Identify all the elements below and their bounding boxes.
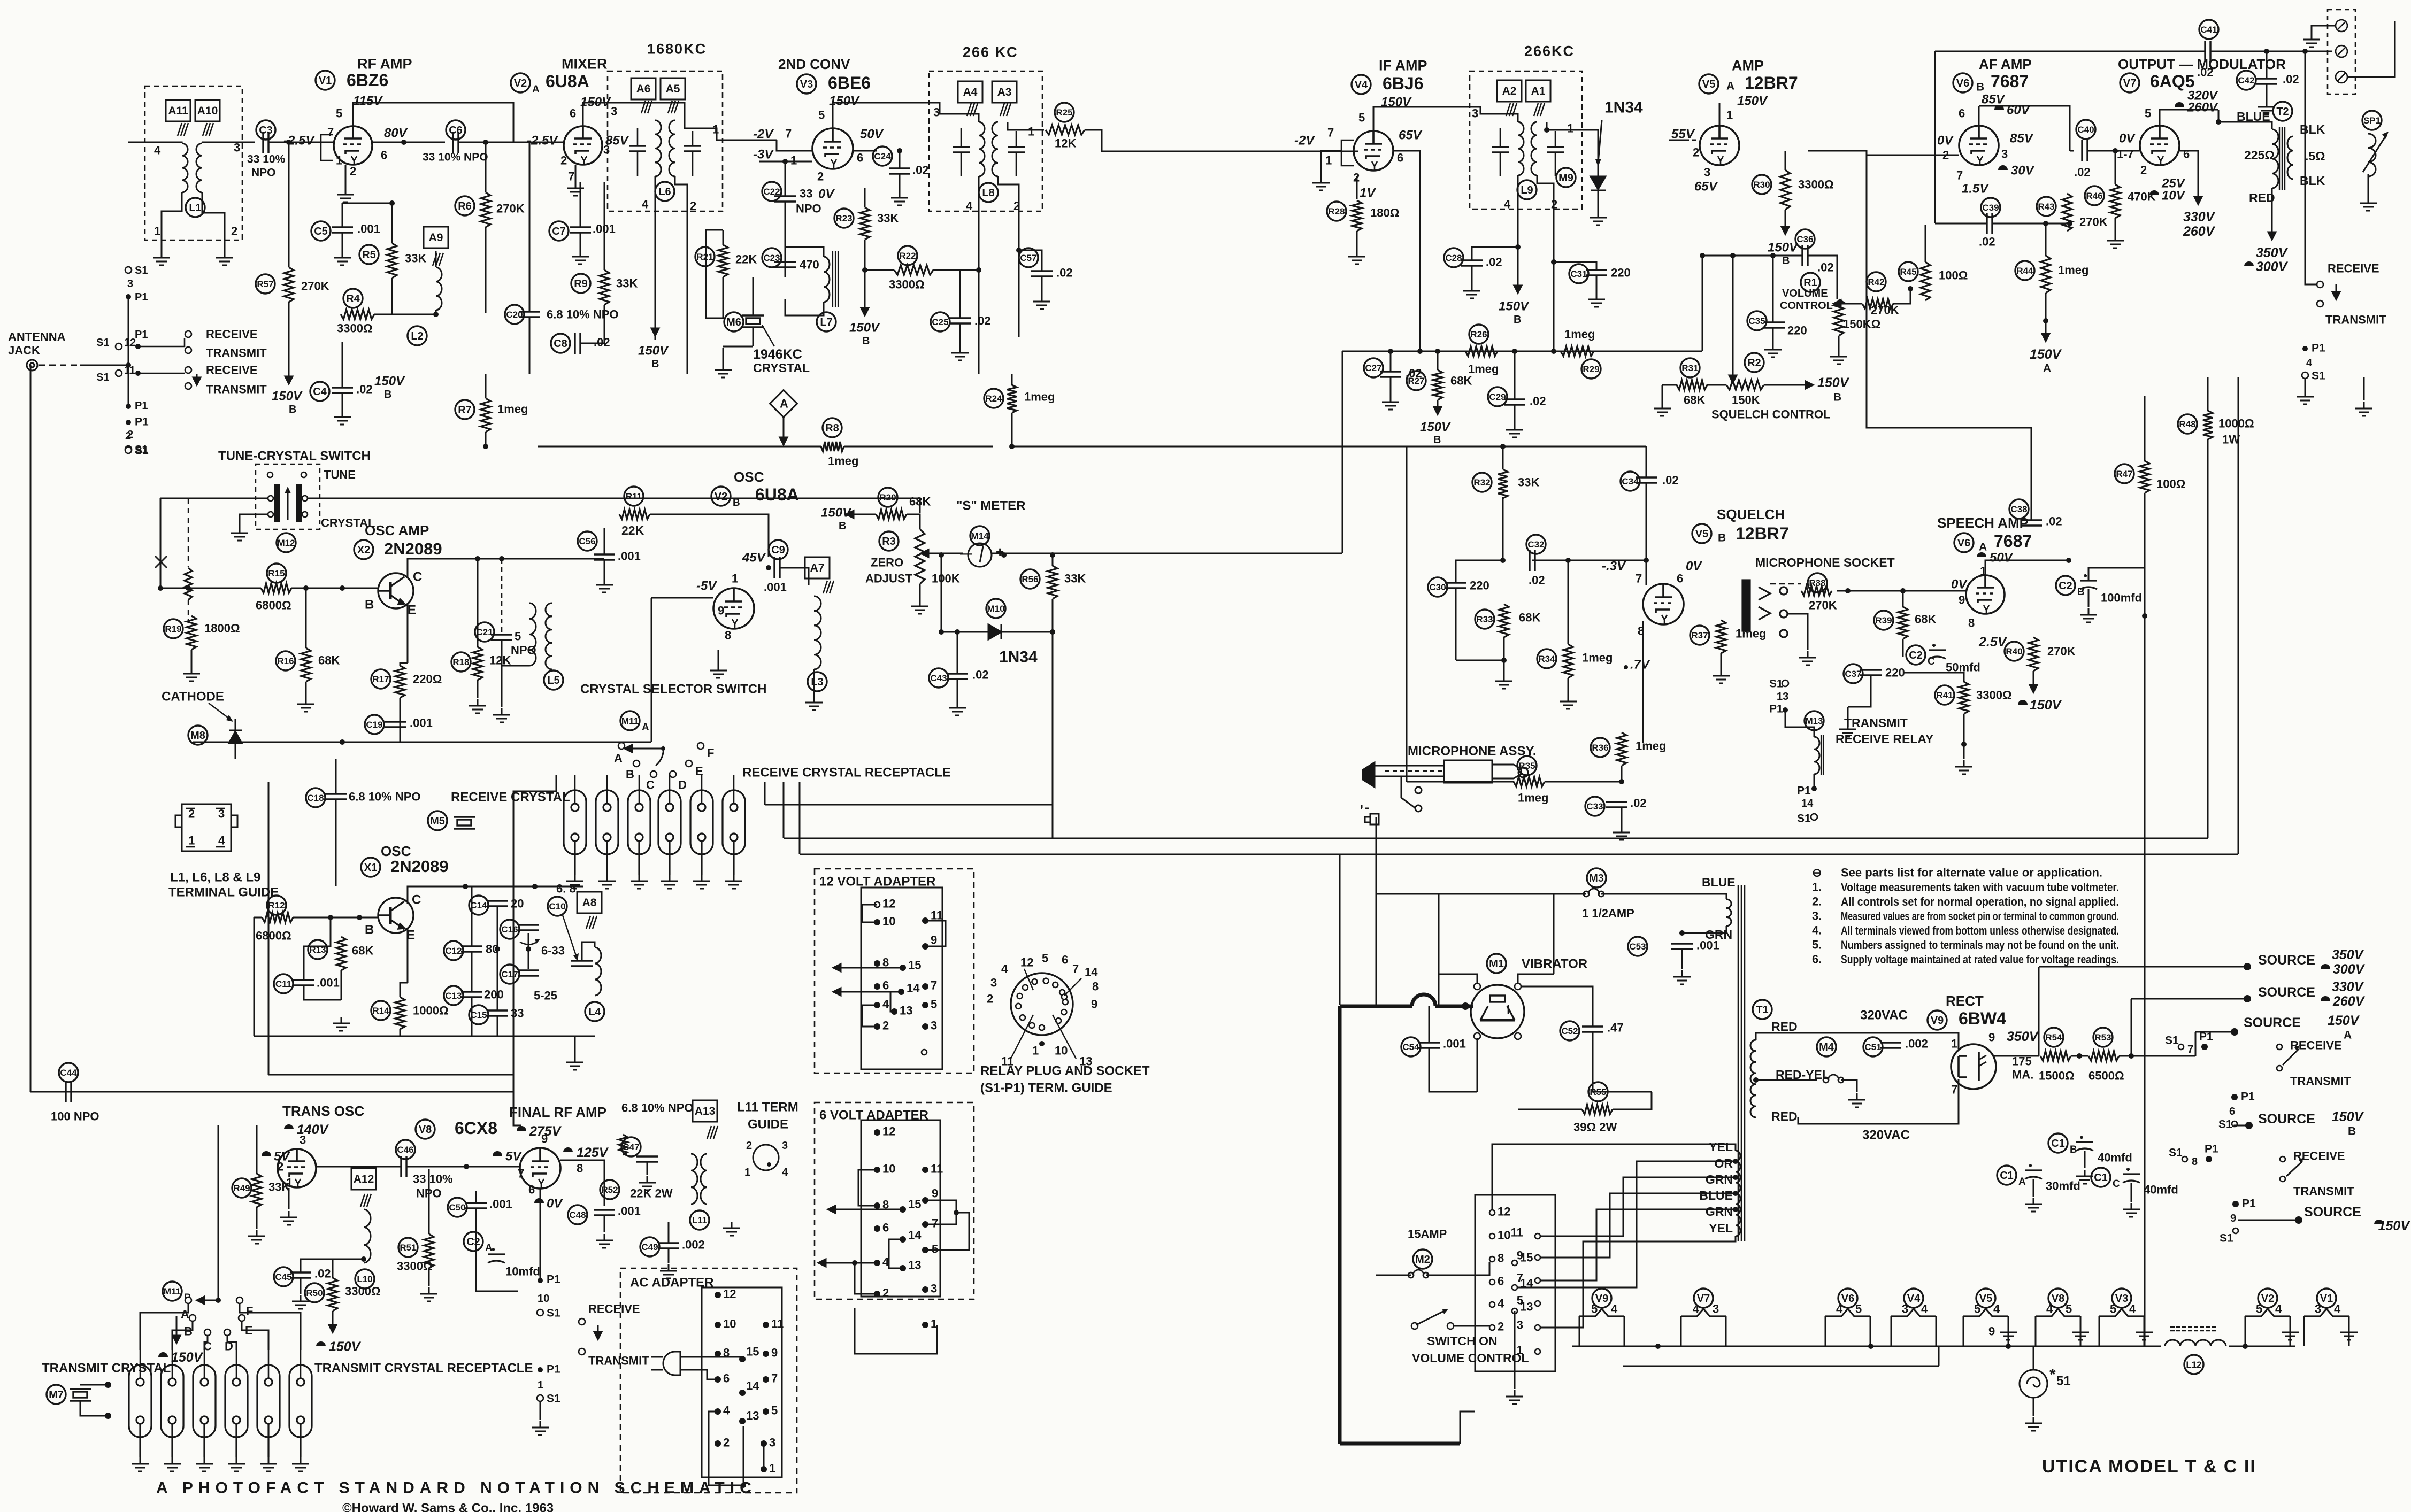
svg-text:M14: M14 xyxy=(971,531,989,541)
junction bus mid xyxy=(1551,349,1556,354)
svg-text:6BE6: 6BE6 xyxy=(828,73,871,92)
wire R38 dashes xyxy=(1770,583,1801,584)
ground R41 xyxy=(1955,760,1972,774)
svg-text:1: 1 xyxy=(538,1379,543,1391)
meas 10V xyxy=(2149,190,2159,195)
arrow recv right xyxy=(2332,284,2340,299)
junction C43 top xyxy=(955,629,960,635)
wire R17 link xyxy=(400,663,408,666)
lead L6 cap sec xyxy=(692,131,694,146)
svg-text:B: B xyxy=(1976,81,1984,93)
fuse M3 designator xyxy=(1587,868,1606,888)
svg-text:.02: .02 xyxy=(2074,166,2091,179)
tube V6A 7687 xyxy=(1966,575,2005,614)
12V pin 10 xyxy=(874,919,880,925)
capacitor C34 xyxy=(1621,472,1640,491)
svg-text:5: 5 xyxy=(932,1243,938,1256)
cap C22 plates xyxy=(774,196,796,202)
svg-text:V5: V5 xyxy=(1695,528,1708,540)
wire C4 up xyxy=(342,342,343,388)
svg-text:1: 1 xyxy=(744,1167,750,1178)
capacitor C33 xyxy=(1585,797,1604,816)
wire C4 gnd xyxy=(342,393,343,411)
filament V2 xyxy=(2245,1309,2290,1316)
svg-text:⊖: ⊖ xyxy=(1812,866,1822,880)
resistor R23 xyxy=(860,207,870,240)
contact P1 right xyxy=(2302,346,2308,351)
meas 60V xyxy=(1994,105,2004,110)
wire X1 collector xyxy=(408,886,583,904)
capacitor C14 xyxy=(469,896,488,915)
svg-text:YEL: YEL xyxy=(1709,1140,1733,1154)
svg-text:-2V: -2V xyxy=(753,127,774,141)
terminal screw 1 xyxy=(2336,20,2347,32)
6V bottom loop xyxy=(855,1308,937,1354)
resistor R51 xyxy=(424,1234,434,1268)
filament legs2 V3 xyxy=(2144,1316,2145,1346)
svg-text:C53: C53 xyxy=(1629,942,1646,952)
cap L8 primary xyxy=(953,147,970,152)
svg-text:L9: L9 xyxy=(1521,184,1533,196)
wire M10 node left xyxy=(941,555,942,632)
resistor R32 xyxy=(1498,469,1508,498)
svg-text:P1: P1 xyxy=(2312,342,2325,354)
svg-text:A: A xyxy=(532,84,540,95)
meas 5V V8A xyxy=(262,1151,271,1156)
svg-text:12K: 12K xyxy=(1055,137,1076,150)
svg-text:V1: V1 xyxy=(2320,1293,2333,1305)
wire R39 down xyxy=(1902,639,1904,657)
capacitor C1B xyxy=(2076,1136,2093,1151)
svg-text:1meg: 1meg xyxy=(497,403,528,416)
capacitor C20 xyxy=(505,305,524,324)
ground V1 cathode xyxy=(337,188,354,202)
cap C11 plates xyxy=(293,980,314,985)
svg-text:L11 TERM: L11 TERM xyxy=(737,1100,798,1114)
resistor R12 xyxy=(262,913,293,922)
junction chain b xyxy=(526,946,531,952)
resistor R46 designator xyxy=(2085,186,2104,205)
ground V2B xyxy=(710,664,727,678)
wire R30 top xyxy=(1785,151,1786,170)
wire C21 up xyxy=(501,559,503,635)
wire tap YEL b xyxy=(1540,1236,1736,1328)
ground C27 xyxy=(1382,396,1399,410)
relay plug pin1 dot xyxy=(1039,1041,1045,1046)
wire R22 left xyxy=(865,269,894,271)
resistor R30 xyxy=(1780,170,1790,210)
svg-text:.02: .02 xyxy=(2283,73,2299,86)
tube V1 6BZ6 xyxy=(334,126,372,165)
capacitor C2A xyxy=(488,1248,505,1263)
6V strap 10-8 xyxy=(858,1170,877,1206)
tube V7 6AQ5 xyxy=(2140,126,2179,165)
junction M7 bottom xyxy=(105,1413,111,1419)
wire C12 vert xyxy=(471,952,473,992)
wire V2B left vert xyxy=(651,598,652,742)
svg-text:TERMINAL GUIDE: TERMINAL GUIDE xyxy=(168,885,279,899)
svg-text:2: 2 xyxy=(350,165,356,178)
ground R16 xyxy=(297,698,314,712)
wire grid left xyxy=(1808,151,1959,155)
svg-text:2ND CONV: 2ND CONV xyxy=(778,56,850,72)
wire right col3 xyxy=(2238,377,2239,854)
ground L11 xyxy=(723,1222,740,1236)
svg-text:.001: .001 xyxy=(410,716,433,730)
svg-text:6: 6 xyxy=(2229,1106,2235,1117)
svg-text:3: 3 xyxy=(218,807,225,821)
wire C18 down xyxy=(335,799,337,886)
wire C1A gnd xyxy=(2033,1179,2034,1197)
trimmer A3 xyxy=(1000,103,1011,116)
svg-text:C35: C35 xyxy=(1748,316,1765,326)
svg-text:.02: .02 xyxy=(2197,66,2214,79)
wire relay vert xyxy=(2305,51,2317,284)
wire 350V source up xyxy=(2038,967,2040,1056)
wire C53 gnd xyxy=(1681,949,1683,969)
wire R45 up xyxy=(1925,225,1926,262)
svg-text:R41: R41 xyxy=(1936,690,1953,700)
relay M13 designator xyxy=(1805,711,1824,730)
svg-text:51: 51 xyxy=(2056,1374,2071,1388)
svg-text:9: 9 xyxy=(771,1346,778,1360)
tx rotary arm xyxy=(197,1297,218,1304)
filament V4 xyxy=(1891,1309,1936,1316)
wire dashed branch xyxy=(188,498,189,567)
resistor R19 xyxy=(187,616,196,650)
svg-text:S1: S1 xyxy=(1769,677,1783,690)
junction battery xyxy=(1462,1002,1469,1010)
relay core xyxy=(1821,735,1823,775)
cap C24 plates xyxy=(889,168,910,174)
12V pin o xyxy=(922,1050,927,1055)
wire R56 down xyxy=(1052,599,1054,632)
resistor R21 xyxy=(718,245,728,277)
svg-text:33K: 33K xyxy=(616,277,638,290)
cap C45 plates xyxy=(290,1272,311,1278)
svg-text:2N2089: 2N2089 xyxy=(390,857,449,876)
crystal callout xyxy=(762,325,774,346)
resistor R30 designator xyxy=(1752,175,1771,194)
svg-text:5: 5 xyxy=(1591,1302,1598,1316)
wire M3 left xyxy=(1376,893,1586,895)
resistor R51 designator xyxy=(398,1238,418,1257)
tube V3 6BE6 xyxy=(812,128,853,169)
wire V5 grid2 xyxy=(1669,140,1685,141)
transmit crystal socket C ground xyxy=(196,1457,213,1471)
junction fil a xyxy=(1868,1344,1873,1349)
wire V4 grid frame xyxy=(1341,140,1354,166)
svg-text:350V: 350V xyxy=(2007,1029,2039,1044)
AC pin 1 xyxy=(761,1466,767,1472)
transmit crystal socket B ground xyxy=(164,1457,181,1471)
svg-text:S1: S1 xyxy=(96,337,109,349)
wire C33 gnd xyxy=(1621,807,1623,826)
svg-text:7687: 7687 xyxy=(1994,531,2032,551)
transmit crystal socket E ground xyxy=(260,1457,277,1471)
ground osc block xyxy=(566,1056,583,1070)
crystal M5 designator xyxy=(428,811,447,830)
ground C2B xyxy=(2080,608,2097,622)
svg-text:11: 11 xyxy=(1511,1226,1523,1239)
svg-text:6-33: 6-33 xyxy=(541,944,565,958)
resistor R34 designator xyxy=(1537,649,1556,668)
wire V7 screen xyxy=(2179,151,2198,190)
wire R20 right xyxy=(907,514,920,529)
svg-text:A7: A7 xyxy=(810,562,825,574)
wire M10 left xyxy=(941,631,988,633)
tube designator V6 xyxy=(1953,73,1972,92)
wire R50 topwire xyxy=(332,1259,334,1278)
resistor R15 xyxy=(261,583,291,593)
filament designator V2 xyxy=(2258,1289,2277,1308)
resistor R54 xyxy=(2040,1051,2071,1061)
resistor R46 xyxy=(2110,184,2120,218)
svg-text:R55: R55 xyxy=(1590,1087,1606,1097)
svg-text:85V: 85V xyxy=(605,133,629,148)
svg-text:C19: C19 xyxy=(366,720,382,730)
wire L8 pri bottom xyxy=(978,176,980,374)
wire tx A stem xyxy=(140,1303,188,1350)
svg-text:BLK: BLK xyxy=(2300,122,2325,136)
resistor R20 xyxy=(876,510,907,519)
svg-text:7: 7 xyxy=(327,126,334,139)
svg-text:1: 1 xyxy=(1028,125,1034,138)
tube designator V2 xyxy=(511,73,540,95)
coil L8 primary xyxy=(979,122,985,176)
svg-text:R19: R19 xyxy=(165,624,181,634)
ground C42 xyxy=(2258,101,2275,114)
meas source 300 xyxy=(2321,964,2330,969)
svg-text:CRYSTAL: CRYSTAL xyxy=(753,361,810,375)
ground C57 xyxy=(1033,295,1050,309)
wire R57 vert xyxy=(288,142,290,267)
wire C1C gnd xyxy=(2131,1183,2132,1202)
cap C19 plates xyxy=(385,722,406,727)
svg-text:C1: C1 xyxy=(2051,1138,2065,1150)
junction R57 top xyxy=(286,140,291,145)
svg-text:TRANSMIT: TRANSMIT xyxy=(2325,313,2386,327)
svg-text:12 VOLT ADAPTER: 12 VOLT ADAPTER xyxy=(819,874,935,889)
wire C50 down xyxy=(476,1208,518,1291)
svg-text:.02: .02 xyxy=(1662,474,1679,487)
contact S1-11 xyxy=(116,370,122,376)
tube V6B 7687 xyxy=(1959,126,1999,165)
wire sw receive b xyxy=(138,373,185,374)
svg-text:6BJ6: 6BJ6 xyxy=(1383,74,1424,93)
capacitor C41 xyxy=(2199,20,2218,39)
12V pin 2 xyxy=(874,1023,880,1030)
wire R34 gnd xyxy=(1568,678,1569,695)
wire C43 gnd xyxy=(957,679,958,701)
svg-text:VOLUME CONTROL: VOLUME CONTROL xyxy=(1412,1351,1529,1365)
ground C29 xyxy=(1506,423,1523,437)
svg-text:GRN: GRN xyxy=(1706,1205,1733,1218)
wire M10 right xyxy=(1001,631,1053,633)
svg-text:4: 4 xyxy=(1611,1302,1618,1316)
wire C57 gnd xyxy=(1041,276,1043,295)
svg-text:50V: 50V xyxy=(860,127,884,141)
adjust A3 xyxy=(992,81,1017,103)
junction T1 CT xyxy=(1753,1077,1759,1083)
capacitor C51 xyxy=(1863,1037,1883,1056)
wire AVC bus b xyxy=(844,446,993,448)
svg-text:L5: L5 xyxy=(547,675,559,686)
AC pin 14 xyxy=(739,1390,746,1396)
svg-text:NPO: NPO xyxy=(251,166,276,179)
vibrator pin b xyxy=(1515,983,1521,990)
resistor R7 designator xyxy=(455,400,474,419)
junction R32 bottom xyxy=(1500,558,1506,563)
svg-text:260V: 260V xyxy=(2183,224,2216,239)
svg-text:8: 8 xyxy=(1092,980,1099,993)
svg-text:13: 13 xyxy=(1079,1055,1092,1068)
capacitor C37 xyxy=(1844,664,1863,683)
svg-text:C51: C51 xyxy=(1864,1042,1881,1052)
tx rotary contact E xyxy=(239,1315,245,1321)
svg-text:B: B xyxy=(2348,1125,2356,1137)
12V pin 4 xyxy=(874,1002,880,1008)
capacitor C9 xyxy=(769,540,788,559)
svg-text:P1: P1 xyxy=(135,329,148,341)
12V arrow 14 xyxy=(833,988,901,996)
ground C48 xyxy=(596,1234,613,1248)
svg-text:RECEIVE: RECEIVE xyxy=(2328,262,2379,275)
cap C16 plates xyxy=(518,925,539,930)
svg-text:S1: S1 xyxy=(135,444,149,457)
12V strap 11-9 xyxy=(925,921,946,946)
filament V9b xyxy=(1579,1309,1624,1316)
wire V7 plate top xyxy=(2160,110,2218,126)
junction R36 bottom xyxy=(1619,779,1624,784)
junction bus left xyxy=(1417,349,1423,354)
svg-text:1800Ω: 1800Ω xyxy=(204,622,240,635)
resistor R52 designator xyxy=(600,1180,619,1199)
6V pin 11 xyxy=(922,1167,928,1173)
resistor R27 designator xyxy=(1407,371,1426,390)
svg-text:L11: L11 xyxy=(692,1215,707,1225)
svg-text:RECT: RECT xyxy=(1946,993,1984,1009)
transistor designator X1 xyxy=(361,858,380,877)
wire C45 top xyxy=(301,1259,364,1272)
svg-text:2: 2 xyxy=(817,170,824,183)
svg-text:150V: 150V xyxy=(2378,1218,2411,1233)
resistor R16 designator xyxy=(276,651,295,670)
wire C29 top xyxy=(1514,351,1516,399)
node A diamond xyxy=(770,390,797,418)
wire C39 right xyxy=(1992,223,2070,225)
wire L1 pin3 to C3 xyxy=(202,142,255,143)
resistor R14 designator xyxy=(371,1001,390,1020)
AC pin 12 xyxy=(715,1292,721,1298)
svg-text:P1: P1 xyxy=(2241,1090,2255,1102)
svg-text:JACK: JACK xyxy=(8,344,40,357)
svg-text:C18: C18 xyxy=(307,793,324,803)
resistor R37 designator xyxy=(1690,626,1709,645)
coil T1 HV secondary xyxy=(1750,1040,1756,1117)
svg-text:R26: R26 xyxy=(1470,329,1487,340)
resistor R41 xyxy=(1959,682,1969,714)
resistor R36 xyxy=(1617,732,1626,766)
resistor R27 xyxy=(1433,370,1442,400)
capacitor C2C designator xyxy=(1906,645,1935,667)
svg-text:.02: .02 xyxy=(1630,797,1647,810)
tap BLUE xyxy=(1733,1191,1738,1196)
wire C56 up xyxy=(604,528,605,554)
resistor R25 designator xyxy=(1055,103,1074,122)
svg-text:2: 2 xyxy=(1693,146,1699,159)
AC pin 13 xyxy=(739,1418,746,1424)
terminal source 3 xyxy=(2231,1028,2238,1036)
svg-text:4: 4 xyxy=(2129,1302,2136,1316)
cap C53 plates xyxy=(1671,944,1693,949)
wire V5 plate top xyxy=(1719,103,1721,126)
filament legs2 V6 xyxy=(1870,1316,1871,1346)
svg-text:220: 220 xyxy=(1470,579,1489,592)
6V pin 5 xyxy=(922,1247,928,1253)
svg-text:68K: 68K xyxy=(1519,611,1540,624)
main connector frame xyxy=(1475,1195,1555,1371)
svg-text:0V: 0V xyxy=(2119,131,2136,145)
coil L6 designator xyxy=(655,182,674,201)
wire M9 gnd xyxy=(1598,199,1599,211)
coil L9 primary xyxy=(1518,122,1524,175)
wire C6 to V2 xyxy=(458,142,564,143)
12V pin 5 xyxy=(922,1002,928,1008)
svg-text:220: 220 xyxy=(1787,324,1807,337)
meas 300V xyxy=(2244,261,2254,266)
wire AVC bus xyxy=(538,446,821,448)
svg-text:R37: R37 xyxy=(1691,630,1708,641)
wire relay bottom xyxy=(1814,774,1815,786)
coil L2 designator xyxy=(408,326,427,345)
resistor dashed xyxy=(185,568,192,600)
capacitor C12 xyxy=(444,941,463,960)
capacitor C29 xyxy=(1488,387,1507,406)
AC pin 15 xyxy=(739,1356,746,1362)
wire L6 sec bottom xyxy=(675,176,687,374)
contact P1 V8 xyxy=(538,1278,543,1283)
resistor R44 designator xyxy=(2015,261,2034,280)
cap C20 plates xyxy=(519,312,540,317)
crystal M6 1946KC xyxy=(742,315,764,327)
wire vib right rail xyxy=(1553,894,1555,974)
svg-text:C57: C57 xyxy=(1020,253,1036,263)
wire R7 bottom xyxy=(485,432,487,446)
resistor R14 xyxy=(395,997,405,1029)
contact xmit right xyxy=(2317,300,2323,307)
wire C43 up2 xyxy=(957,632,958,674)
wire V8B cath down xyxy=(540,1188,541,1278)
capacitor C44 xyxy=(59,1063,78,1082)
arrow R30 150V xyxy=(1782,210,1789,234)
wire C30 down xyxy=(1455,588,1457,660)
svg-text:P1: P1 xyxy=(1797,784,1811,797)
wire osc block bottom xyxy=(254,1036,595,1037)
junction antenna xyxy=(126,362,131,368)
svg-text:S1: S1 xyxy=(2218,1118,2232,1130)
lead L8 cap pri xyxy=(961,128,962,147)
pilot lamp 51 xyxy=(2020,1370,2047,1398)
wire M10 down right xyxy=(1052,632,1054,838)
junction R32 top xyxy=(1500,444,1506,449)
svg-text:150V: 150V xyxy=(2030,698,2062,713)
switch contact tune a xyxy=(267,472,273,477)
svg-text:C9: C9 xyxy=(771,544,785,556)
ground C45 xyxy=(292,1295,309,1309)
resistor R47 designator xyxy=(2115,464,2134,483)
12V pin 3 xyxy=(922,1023,928,1030)
